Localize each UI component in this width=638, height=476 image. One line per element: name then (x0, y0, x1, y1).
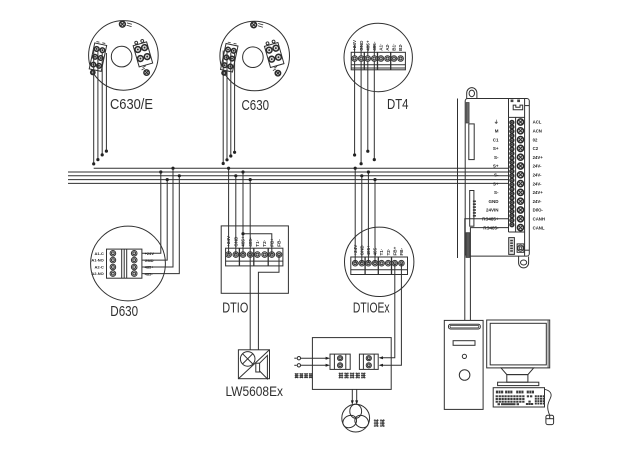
svg-text:24V+: 24V+ (533, 155, 544, 160)
IO module DTIOEx (345, 227, 414, 296)
svg-text:A2-NO: A2-NO (91, 271, 103, 276)
svg-text:485-: 485- (372, 41, 377, 51)
wire (360, 45, 362, 164)
svg-text:A1-NO: A1-NO (91, 258, 103, 263)
jumper wire DTIO T3 to T7 (243, 234, 272, 255)
junction dot (233, 151, 236, 154)
svg-text:A1·: A1· (379, 43, 384, 50)
DTIO terminal strip (226, 235, 283, 266)
wire (97, 51, 99, 160)
bus wire L1 (94, 167, 509, 169)
smoke detector base C630/E (89, 21, 159, 91)
wire DTIOEx T7 to fan driver (382, 263, 395, 358)
computer keyboard (493, 388, 544, 407)
wire RS485+ controller to computer (465, 219, 509, 321)
wire DTIOEx T8 to fan driver (382, 263, 402, 365)
svg-text:C630: C630 (242, 97, 270, 114)
svg-text:LW5608Ex: LW5608Ex (226, 383, 284, 399)
svg-text:DI/O-: DI/O- (533, 208, 544, 213)
wire DTIO T8 to LW5608Ex (258, 255, 279, 350)
controller bottom mounting ear (519, 257, 529, 268)
svg-text:GND: GND (489, 199, 500, 204)
wire (226, 52, 228, 160)
svg-text:S+: S+ (493, 146, 499, 151)
controller bottom connector (509, 238, 515, 255)
controller terminal strip (509, 117, 525, 232)
svg-text:24V-: 24V- (533, 181, 542, 186)
junction dot (367, 170, 370, 173)
svg-text:A2-C: A2-C (94, 265, 103, 270)
junction dot (234, 174, 237, 177)
smoke detector base C630 (220, 21, 290, 91)
controller side card slots (469, 124, 474, 160)
junction dot (227, 167, 230, 170)
svg-text:S-: S- (494, 190, 499, 195)
wire D630 +24V to bus (142, 172, 161, 253)
bus wire L3 (68, 175, 509, 177)
junction dot (229, 154, 232, 157)
svg-text:T2·: T2· (386, 249, 391, 256)
svg-text:FB-: FB- (399, 247, 404, 255)
external power wire (294, 364, 296, 366)
svg-text:C630/E: C630/E (110, 96, 153, 113)
svg-text:DT4: DT4 (387, 96, 409, 113)
wire (373, 45, 375, 160)
bus wire L2 (68, 171, 509, 173)
junction dot (171, 167, 174, 170)
junction dot (178, 174, 181, 177)
controller body (465, 99, 529, 257)
DIN rail line (457, 99, 459, 259)
wire fan driver to fan (356, 389, 358, 401)
DT4 terminal strip (351, 39, 405, 70)
svg-text:S-: S- (494, 155, 499, 160)
svg-text:+24V: +24V (145, 251, 155, 256)
computer tower (444, 320, 483, 409)
input module DT4 (344, 23, 412, 91)
wire (354, 45, 356, 156)
wire bus to DTIO (242, 172, 244, 255)
svg-text:ACL: ACL (533, 120, 542, 125)
svg-text:D630: D630 (110, 303, 138, 320)
svg-text:GND: GND (145, 258, 154, 263)
wire D630 485+ to bus (142, 168, 173, 267)
svg-text:24V-: 24V- (533, 164, 542, 169)
svg-text:485-: 485- (145, 271, 154, 276)
svg-text:C2: C2 (533, 146, 539, 151)
fan symbol (341, 404, 371, 432)
wire (93, 50, 95, 164)
svg-text:CANL: CANL (533, 225, 545, 230)
svg-text:ACN: ACN (533, 129, 542, 134)
junction dot (101, 153, 104, 156)
controller earth terminal (517, 244, 529, 252)
junction dot (96, 158, 99, 161)
junction dot (360, 174, 363, 177)
svg-text:T2·: T2· (262, 240, 267, 247)
svg-text:485+: 485+ (145, 265, 155, 270)
junction dot (92, 162, 95, 165)
svg-text:A2·: A2· (385, 43, 390, 50)
label external power (Chinese) (295, 373, 313, 378)
junction dot (366, 150, 369, 153)
svg-text:B1·: B1· (392, 43, 397, 50)
wire (222, 51, 224, 164)
wire bus to DTIOEx (374, 180, 376, 264)
wire (105, 53, 107, 151)
svg-text:24V+: 24V+ (533, 190, 544, 195)
controller top mounting ear (467, 88, 477, 100)
relay module D630 (91, 226, 166, 301)
svg-text:FB+: FB+ (392, 246, 397, 255)
bus wire L5 (68, 182, 509, 184)
wire (101, 52, 103, 155)
computer mouse (545, 389, 554, 424)
wire RS485- controller to computer (470, 228, 508, 321)
svg-text:DTIO: DTIO (222, 299, 248, 316)
controller terminal screws right column (517, 119, 523, 231)
svg-text:C1: C1 (493, 137, 499, 142)
junction dot (225, 158, 228, 161)
svg-text:FB-: FB- (277, 239, 282, 247)
wire bus to DTIO (235, 176, 237, 255)
svg-text:S-: S- (494, 173, 499, 178)
svg-text:⏚: ⏚ (494, 119, 499, 126)
svg-text:B2·: B2· (398, 43, 403, 50)
wire (234, 54, 236, 153)
svg-text:CANH: CANH (533, 217, 545, 222)
junction dot (373, 178, 376, 181)
wire (230, 53, 232, 157)
external power wire (294, 357, 296, 359)
controller DIN clip (466, 233, 470, 258)
controller pin labels left (482, 119, 499, 231)
junction dot (159, 170, 162, 173)
fan driver right terminal block (359, 354, 378, 369)
svg-text:24V-: 24V- (533, 173, 542, 178)
junction dot (241, 232, 244, 235)
svg-text:+24V: +24V (352, 39, 357, 51)
wire bus to DTIO (228, 168, 230, 254)
svg-text:T1·: T1· (379, 249, 384, 256)
controller terminal screws left column (510, 121, 514, 227)
junction dot (105, 150, 108, 153)
junction dot (373, 158, 376, 161)
junction dot (353, 153, 356, 156)
controller DIN clip top (466, 103, 469, 124)
junction dot (241, 170, 244, 173)
wire bus to DTIOEx (367, 172, 369, 263)
svg-text:M: M (495, 129, 499, 134)
label fan driver (Chinese) (339, 373, 366, 379)
wire bus to DTIOEx (361, 176, 363, 263)
label fan (Chinese) (374, 419, 385, 427)
wire D630 GND to bus (142, 180, 167, 261)
wire (367, 45, 369, 152)
junction dot (166, 178, 169, 181)
sounder beacon LW5608Ex (238, 350, 269, 379)
svg-text:02: 02 (533, 137, 538, 142)
svg-text:DTIOEx: DTIOEx (353, 299, 390, 316)
junction dot (354, 167, 357, 170)
wire DTIO T4 to LW5608Ex (249, 255, 251, 350)
bus wire L4 (68, 179, 509, 181)
controller top connector detail (509, 99, 530, 256)
computer monitor (487, 320, 550, 386)
wire bus to DTIO (249, 180, 251, 255)
svg-text:A1-C: A1-C (94, 251, 103, 256)
svg-text:485+: 485+ (365, 40, 370, 51)
junction dot (360, 162, 363, 165)
controller pin labels right (533, 120, 545, 231)
svg-text:T1·: T1· (255, 240, 260, 247)
svg-text:GND: GND (359, 40, 364, 51)
IO module DTIO box (221, 226, 288, 293)
svg-text:24V-: 24V- (533, 199, 542, 204)
wire bus to DTIOEx (354, 168, 356, 263)
wire D630 485- to bus (142, 176, 179, 274)
svg-text:24VIN: 24VIN (486, 208, 499, 213)
controller DIP switch marks (473, 201, 476, 217)
junction dot (222, 162, 225, 165)
fan driver left terminal block (330, 354, 350, 369)
junction dot (249, 178, 252, 181)
fan driver box (312, 338, 391, 390)
wire fan driver to fan (351, 389, 353, 401)
